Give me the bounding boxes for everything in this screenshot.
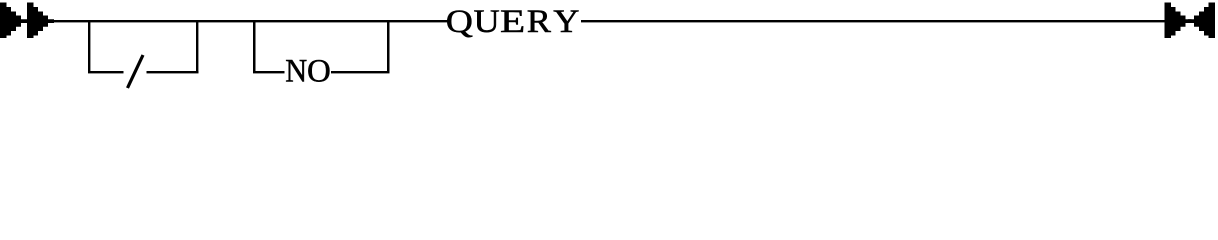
svg-text:O: O <box>307 54 331 90</box>
svg-text:Y: Y <box>553 3 579 40</box>
svg-text:Q: Q <box>446 2 473 39</box>
svg-text:N: N <box>285 52 307 88</box>
svg-text:R: R <box>527 3 552 40</box>
svg-text:E: E <box>500 4 525 40</box>
svg-text:U: U <box>474 3 500 40</box>
